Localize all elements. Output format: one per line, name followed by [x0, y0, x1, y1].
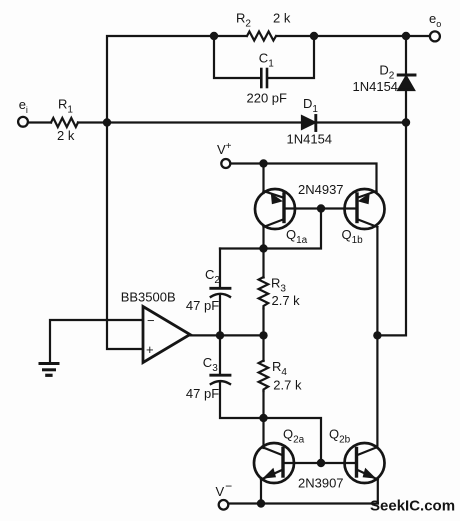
- svg-text:47 pF: 47 pF: [186, 386, 219, 401]
- svg-text:2.7 k: 2.7 k: [272, 293, 301, 308]
- svg-text:1N4154: 1N4154: [353, 79, 399, 94]
- svg-text:2N4937: 2N4937: [298, 182, 344, 197]
- svg-text:220 pF: 220 pF: [247, 90, 288, 105]
- svg-text:2.7 k: 2.7 k: [273, 377, 302, 392]
- svg-text:1N4154: 1N4154: [287, 132, 333, 147]
- svg-text:−: −: [147, 313, 155, 328]
- svg-text:2 k: 2 k: [57, 128, 75, 143]
- svg-text:2N3907: 2N3907: [298, 476, 344, 491]
- svg-text:+: +: [146, 342, 154, 357]
- svg-text:47 pF: 47 pF: [186, 298, 219, 313]
- svg-text:2 k: 2 k: [273, 11, 291, 26]
- svg-text:BB3500B: BB3500B: [121, 290, 176, 305]
- svg-text:SeekIC.com: SeekIC.com: [370, 498, 455, 515]
